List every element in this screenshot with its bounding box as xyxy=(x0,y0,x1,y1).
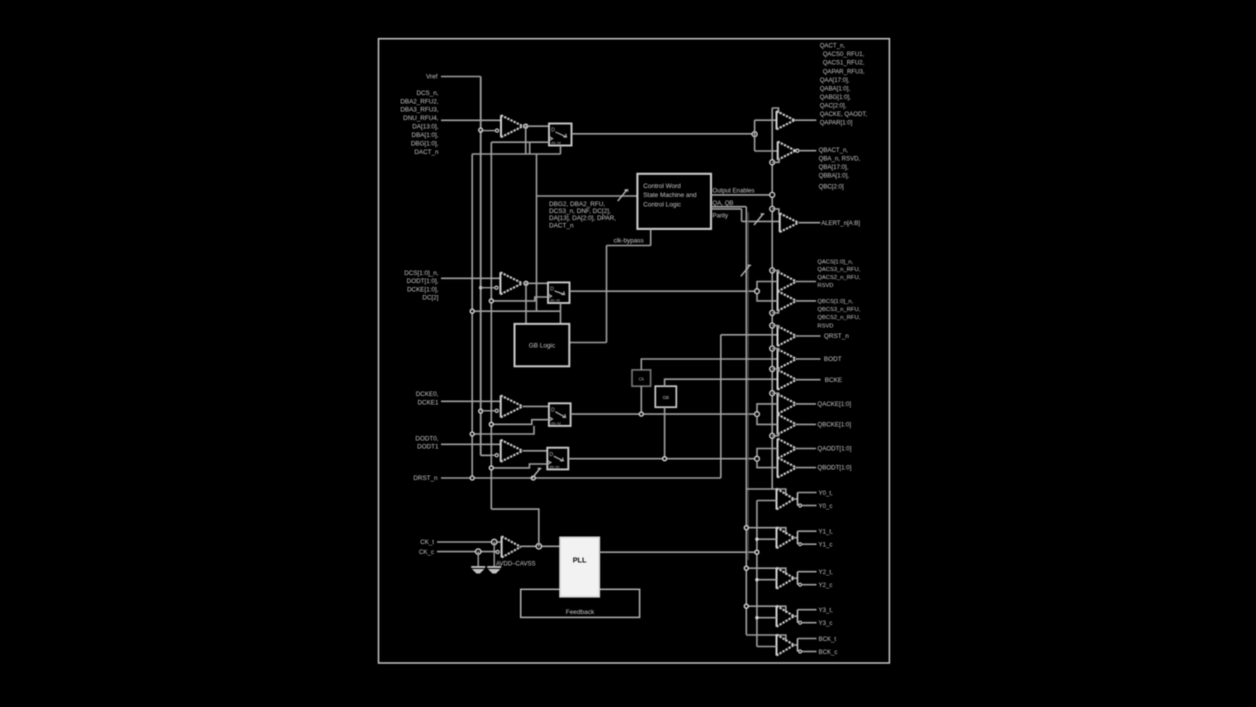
svg-text:QABA[1:0],: QABA[1:0], xyxy=(820,85,851,92)
svg-text:RSVD: RSVD xyxy=(817,283,833,289)
svg-text:DBA2_RFU2,: DBA2_RFU2, xyxy=(400,98,438,105)
svg-text:DODT0,: DODT0, xyxy=(415,436,438,443)
svg-text:CK_c: CK_c xyxy=(419,549,434,556)
svg-text:DBA[1:0],: DBA[1:0], xyxy=(412,132,439,139)
bus width slash 8 xyxy=(618,190,628,201)
wire Y1 out true xyxy=(798,530,817,532)
svg-text:DNU_RFU4,: DNU_RFU4, xyxy=(403,115,439,122)
wire pairC shared left edge xyxy=(777,439,779,478)
output buffer Y3 xyxy=(776,606,778,627)
logic box GB Logic xyxy=(515,324,570,366)
junction pairB input xyxy=(755,412,760,417)
wire BCK out true xyxy=(798,638,817,640)
svg-text:BCKE: BCKE xyxy=(825,377,842,384)
wire Y1 out complement xyxy=(802,543,817,545)
output buffer Y1 xyxy=(776,527,778,548)
svg-text:QACKE, QAODT,: QACKE, QAODT, xyxy=(820,111,868,118)
wire FF2 bottom stub xyxy=(560,303,562,311)
junction clock FF3 xyxy=(489,422,493,426)
wire QRST input xyxy=(721,334,778,336)
svg-text:DCS3_n, DNF, DC[2],: DCS3_n, DNF, DC[2], xyxy=(549,208,611,215)
wire Y0 enable xyxy=(746,489,786,496)
wire Vref vertical bus xyxy=(480,77,482,456)
bubble BCK complement xyxy=(799,650,802,653)
svg-text:QAPAR_RFU3,: QAPAR_RFU3, xyxy=(823,68,865,75)
junction GB2 tap xyxy=(663,457,667,461)
svg-text:CK_t: CK_t xyxy=(420,539,434,546)
wire QA enable from bus xyxy=(772,108,778,113)
junction clk G3 xyxy=(755,578,758,581)
wire parity down xyxy=(741,209,743,222)
junction en b3 xyxy=(770,367,775,372)
svg-text:DBG[1:0],: DBG[1:0], xyxy=(411,141,439,148)
svg-text:QAA[17:0],: QAA[17:0], xyxy=(820,77,850,84)
wire QA QB split xyxy=(754,120,756,151)
bus width slash alert xyxy=(754,214,764,225)
control box U2 xyxy=(637,174,711,229)
svg-text:QBC[2:0]: QBC[2:0] xyxy=(819,184,844,191)
wire Y2 out true xyxy=(798,571,817,573)
svg-text:D: D xyxy=(551,128,555,134)
output buffer pairC top xyxy=(777,439,779,459)
wire ALERT out xyxy=(799,222,821,224)
svg-text:DCS[1:0]_n,: DCS[1:0]_n, xyxy=(404,270,439,277)
wire FF2 clock jog xyxy=(491,297,548,301)
svg-text:QBCS2_n_RFU,: QBCS2_n_RFU, xyxy=(817,315,860,321)
wire U1 to FF1 xyxy=(526,125,549,127)
wire FF1 clock xyxy=(491,141,549,143)
wire FF3 clock jog xyxy=(491,420,549,425)
wire Ck box bottom xyxy=(640,386,642,414)
svg-text:PLL: PLL xyxy=(573,555,587,564)
junction FF1 out split xyxy=(752,132,757,137)
wire pairA input branch xyxy=(757,282,778,301)
ground CK_t termination xyxy=(493,542,495,566)
junction clock node xyxy=(536,544,541,549)
wire QB input xyxy=(755,150,778,152)
wire BCKE out xyxy=(797,379,821,381)
output buffer QA xyxy=(776,111,778,129)
wire bypass horiz xyxy=(607,245,651,247)
svg-text:BCK_t: BCK_t xyxy=(819,636,837,643)
wire FF4 output xyxy=(568,458,756,460)
wire group4 input xyxy=(441,443,501,445)
svg-text:DCS_n,: DCS_n, xyxy=(416,90,438,97)
svg-text:DACT_n: DACT_n xyxy=(414,149,439,156)
junction U3 output xyxy=(524,281,528,285)
wire U3 down to GB xyxy=(525,283,527,324)
wire pairC input branch xyxy=(757,449,778,468)
svg-text:Y2_t,: Y2_t, xyxy=(819,569,834,576)
junction reset-b xyxy=(531,476,535,480)
junction OE bus xyxy=(770,192,775,197)
wire clocklink xyxy=(529,142,531,154)
latch box GB2 xyxy=(655,386,676,407)
svg-text:Control Word: Control Word xyxy=(643,183,681,190)
output buffer U8 (ALERT) xyxy=(779,213,781,232)
wire FF3 aux rail xyxy=(472,426,534,434)
junction Yen G4 xyxy=(744,604,748,608)
wire pairB input branch xyxy=(757,404,778,425)
svg-text:Y3_t,: Y3_t, xyxy=(819,607,834,614)
svg-text:QBODT[1:0]: QBODT[1:0] xyxy=(817,465,851,472)
junction clock FF4 xyxy=(489,466,493,470)
junction QB enable xyxy=(770,160,775,165)
junction rail3 xyxy=(470,432,474,436)
svg-text:QBA_n, RSVD,: QBA_n, RSVD, xyxy=(819,156,861,163)
svg-text:Vref: Vref xyxy=(426,74,438,81)
svg-text:BODT: BODT xyxy=(824,356,842,363)
wire clock to G1 xyxy=(757,500,777,502)
junction en b2 xyxy=(770,346,775,351)
svg-text:QABG[1:0],: QABG[1:0], xyxy=(820,94,851,101)
output buffer pairA bottom xyxy=(777,291,779,311)
svg-text:DRST_n: DRST_n xyxy=(413,475,438,482)
wire QA QB xyxy=(711,206,746,208)
svg-text:QACKE[1:0]: QACKE[1:0] xyxy=(817,401,851,408)
svg-text:ALERT_n[A:B]: ALERT_n[A:B] xyxy=(821,221,860,227)
wire reset bus xyxy=(471,154,473,478)
wire enB2 stub xyxy=(772,432,778,436)
wire en b2 stub xyxy=(772,349,778,353)
wire Y3 out true xyxy=(798,609,817,611)
wire pairB out top xyxy=(797,403,817,405)
wire QB out xyxy=(799,150,816,152)
junction pairC input xyxy=(755,456,760,461)
svg-text:Parity: Parity xyxy=(713,213,730,220)
wire FF4 clock jog xyxy=(491,464,547,468)
wire FF1 output xyxy=(572,133,754,135)
wire FF2 output xyxy=(570,290,757,292)
switch reset slash xyxy=(531,469,541,480)
svg-text:QBACT_n,: QBACT_n, xyxy=(819,147,849,154)
svg-text:QAPAR[1:0]: QAPAR[1:0] xyxy=(820,120,853,127)
junction reset-a xyxy=(470,476,474,480)
bubble Y0 complement xyxy=(799,504,802,507)
svg-text:BCK_c: BCK_c xyxy=(819,649,838,656)
svg-text:Y3_c: Y3_c xyxy=(819,620,833,627)
bubble Y1 complement xyxy=(799,543,802,546)
latch box Ck xyxy=(632,370,651,386)
wire pairC out top xyxy=(797,448,817,450)
junction CK_t term xyxy=(492,539,497,544)
junction Vref-buf3 xyxy=(479,409,483,413)
svg-text:Ck: Ck xyxy=(639,377,645,382)
output buffer BCK xyxy=(776,635,778,656)
wire clock to G5 xyxy=(757,646,777,648)
flip-flop FF2 xyxy=(548,282,570,303)
output buffer pairC bottom xyxy=(777,458,779,478)
wire CK_c xyxy=(437,551,496,553)
wire control box input xyxy=(537,195,638,197)
wire enable bus xyxy=(771,108,773,489)
wire U4 to FF3 xyxy=(523,405,549,407)
wire QA out xyxy=(795,119,817,121)
wire CK_t xyxy=(437,541,502,543)
svg-text:Feedback: Feedback xyxy=(566,609,595,616)
wire bypass down xyxy=(606,246,608,343)
wire clock to G4 xyxy=(757,617,777,619)
junction clk G4 xyxy=(755,616,758,619)
svg-text:DCKE1: DCKE1 xyxy=(418,399,439,406)
wire Ck box top to b2 xyxy=(641,359,777,370)
svg-text:DBG2, DBA2_RFU,: DBG2, DBA2_RFU, xyxy=(549,201,605,208)
bubble Y2 complement xyxy=(799,583,802,586)
svg-text:DA[13], DA[2:0], DPAR,: DA[13], DA[2:0], DPAR, xyxy=(549,215,616,222)
svg-text:DACT_n: DACT_n xyxy=(549,222,574,229)
wire U1 output down xyxy=(525,126,527,154)
wire Y0 out complement xyxy=(802,505,817,507)
svg-text:dis rst: dis rst xyxy=(549,465,559,469)
wire pairA out top xyxy=(797,281,817,283)
input buffer U6 (CK) xyxy=(501,536,503,557)
wire control feed bus xyxy=(536,154,538,311)
wire BODT out xyxy=(797,358,821,360)
wire enA1 stub xyxy=(772,270,778,274)
junction pairA input xyxy=(755,289,760,294)
wire CK out xyxy=(521,545,560,547)
svg-text:Y0_c: Y0_c xyxy=(819,503,833,510)
input buffer U4 xyxy=(500,395,502,417)
wire FF1 bottom stub xyxy=(560,146,562,155)
junction CK_c term xyxy=(476,549,481,554)
junction Ck tap xyxy=(639,412,643,416)
svg-text:QBCS3_n_RFU,: QBCS3_n_RFU, xyxy=(817,307,860,313)
svg-text:Y1_c: Y1_c xyxy=(819,542,833,549)
input buffer U3 xyxy=(499,272,501,294)
junction clk G2 xyxy=(755,538,758,541)
wire output enables xyxy=(711,194,772,196)
svg-text:AVDD–CAVSS: AVDD–CAVSS xyxy=(496,561,535,567)
wire GB2 box top to b3 xyxy=(665,379,778,386)
svg-text:Y0_t,: Y0_t, xyxy=(819,490,834,497)
wire FF1 reset rail xyxy=(472,153,560,155)
wire FF3 output xyxy=(571,413,757,415)
svg-text:QBA[17:0],: QBA[17:0], xyxy=(819,164,849,171)
wire QA input xyxy=(755,119,777,121)
svg-text:dis rst: dis rst xyxy=(551,421,561,425)
wire Y3 enable xyxy=(746,606,786,613)
svg-text:Y2_c: Y2_c xyxy=(819,582,833,589)
svg-text:dis rst: dis rst xyxy=(551,141,561,145)
junction U1 output xyxy=(524,124,528,128)
output buffer b2 (BODT) xyxy=(777,349,779,369)
svg-text:QACS2_n_RFU,: QACS2_n_RFU, xyxy=(817,275,860,281)
wire enA2 stub xyxy=(772,310,778,313)
border frame xyxy=(379,39,890,663)
input buffer U1 xyxy=(500,115,502,137)
wire Y2 enable xyxy=(746,568,786,575)
input buffer U5 xyxy=(500,440,502,462)
junction Vref-buf1 xyxy=(479,128,483,132)
wire rail group2 xyxy=(472,310,560,312)
wire enB1 stub xyxy=(772,393,778,397)
wire Y2 out complement xyxy=(802,584,817,586)
wire parity to alert xyxy=(742,220,780,222)
PLL box U7 xyxy=(560,537,599,597)
wire Y1 enable xyxy=(746,528,786,535)
svg-text:RSVD: RSVD xyxy=(817,323,833,329)
wire into GB top xyxy=(560,311,562,324)
svg-text:Control Logic: Control Logic xyxy=(643,201,681,208)
bus width slash qaqb xyxy=(741,265,751,276)
wire clock riser to FF clock bus xyxy=(491,509,539,546)
wire Y0 apex link xyxy=(794,498,798,500)
wire group3 input xyxy=(441,400,501,402)
wire clock bus xyxy=(490,142,492,509)
wire clock to G3 xyxy=(757,579,777,581)
wire Y0 output bar xyxy=(797,493,799,506)
junction Yen G2 xyxy=(744,526,748,530)
feedback box xyxy=(521,589,640,617)
svg-text:Output Enables: Output Enables xyxy=(713,187,755,194)
output buffer pairB bottom xyxy=(777,414,779,434)
wire bypass to GB xyxy=(569,342,606,344)
svg-text:QACT_n,: QACT_n, xyxy=(820,43,846,50)
svg-text:D: D xyxy=(550,452,554,458)
wire reset xyxy=(441,477,721,479)
svg-text:QACS0_RFU1,: QACS0_RFU1, xyxy=(823,51,865,58)
svg-text:DBA3_RFU3,: DBA3_RFU3, xyxy=(400,107,438,114)
svg-text:DCKE0,: DCKE0, xyxy=(416,391,439,398)
wire QA-QB bus down xyxy=(745,207,747,635)
output buffer Y0 xyxy=(776,489,778,510)
svg-text:QAC[2:0],: QAC[2:0], xyxy=(820,103,847,110)
svg-text:QACS[1:0]_n,: QACS[1:0]_n, xyxy=(817,259,853,265)
svg-text:DODT1: DODT1 xyxy=(417,444,439,451)
output buffer b3 (BCKE) xyxy=(777,370,779,390)
svg-text:clk-bypass: clk-bypass xyxy=(614,238,644,245)
svg-text:QBCS[1:0]_n,: QBCS[1:0]_n, xyxy=(817,299,853,305)
wire U3 to FF2 xyxy=(526,282,548,284)
svg-text:QBBA[1:0],: QBBA[1:0], xyxy=(819,173,850,180)
bubble Y3 complement xyxy=(799,621,802,624)
wire clock mini-bus xyxy=(756,501,758,647)
svg-text:GB Logic: GB Logic xyxy=(529,342,556,349)
wire BCK apex link xyxy=(794,644,798,646)
flip-flop FF3 xyxy=(549,403,571,426)
wire Y3 output bar xyxy=(797,610,799,623)
wire Y2 output bar xyxy=(797,572,799,585)
wire Vref to buf4 bubble xyxy=(481,454,492,456)
svg-text:8: 8 xyxy=(626,188,629,194)
wire Y1 apex link xyxy=(794,537,798,539)
wire Y3 out complement xyxy=(802,622,817,624)
svg-text:DCKE[1:0],: DCKE[1:0], xyxy=(407,286,439,293)
wire Y1 output bar xyxy=(797,531,799,544)
wire pairA shared left edge xyxy=(777,272,779,311)
svg-text:DODT[1:0],: DODT[1:0], xyxy=(407,278,439,285)
svg-text:DC[2]: DC[2] xyxy=(422,295,438,302)
wire parity shadow xyxy=(747,212,749,560)
wire pairB out bottom xyxy=(797,423,817,425)
output buffer QB (inverting) xyxy=(777,142,779,160)
wire GB2 box bottom xyxy=(664,407,666,459)
wire Y3 apex link xyxy=(794,615,798,617)
wire PLL output xyxy=(599,551,757,553)
svg-text:QAODT[1:0]: QAODT[1:0] xyxy=(817,446,851,453)
svg-text:D: D xyxy=(551,408,555,414)
wire QB enable stub xyxy=(772,159,779,163)
wire clock to G2 xyxy=(757,538,777,540)
wire en b3 stub xyxy=(772,369,778,373)
svg-text:dis rst: dis rst xyxy=(550,298,560,302)
wire pairA out bottom xyxy=(797,300,817,302)
wire Vref xyxy=(441,76,481,78)
junction clock FF2 xyxy=(489,299,493,303)
junction Vref-buf2 xyxy=(479,286,482,289)
wire U5 to FF4 xyxy=(523,450,548,452)
svg-text:QACS1_RFU2,: QACS1_RFU2, xyxy=(823,60,865,67)
wire BCK enable xyxy=(746,635,786,642)
junction enA1 xyxy=(770,268,775,273)
wire pairB shared left edge xyxy=(777,394,779,435)
svg-text:QBCKE[1:0]: QBCKE[1:0] xyxy=(817,422,851,429)
wire alert enable stub xyxy=(772,209,779,214)
junction Yen G3 xyxy=(744,566,748,570)
junction enB2 xyxy=(770,433,775,438)
ground CK_c termination xyxy=(477,552,479,566)
junction alert enable xyxy=(770,206,775,211)
wire group2 input xyxy=(441,277,500,279)
junction en b1 xyxy=(770,323,775,328)
svg-text:GB: GB xyxy=(663,395,669,400)
svg-text:QRST_n: QRST_n xyxy=(824,333,849,340)
wire parity xyxy=(711,208,742,210)
wire reset up xyxy=(720,335,722,478)
junction enB1 xyxy=(770,391,775,396)
wire pairC out bottom xyxy=(797,467,817,469)
output buffer b1 (QRST_n) xyxy=(777,326,779,346)
flip-flop FF1 xyxy=(549,124,572,146)
svg-text:Y1_t,: Y1_t, xyxy=(819,529,834,536)
svg-text:QACS3_n_RFU,: QACS3_n_RFU, xyxy=(817,267,860,273)
wire Y2 apex link xyxy=(794,577,798,579)
wire group1 input xyxy=(441,119,501,121)
flip-flop FF4 xyxy=(547,448,568,470)
junction PLL clock xyxy=(755,550,759,554)
output buffer pairB top xyxy=(777,394,779,414)
wire QRST out xyxy=(797,335,821,337)
junction enA2 xyxy=(770,310,775,315)
wire en b1 stub xyxy=(772,326,778,330)
wire BCK out complement xyxy=(802,651,817,653)
wire BCK output bar xyxy=(797,639,799,652)
junction rail2 xyxy=(470,309,474,313)
output buffer pairA top xyxy=(777,272,779,292)
output buffer Y2 xyxy=(776,568,778,589)
wire bypass stub xyxy=(650,229,652,246)
svg-text:DA[13:0],: DA[13:0], xyxy=(412,124,439,131)
svg-text:State Machine and: State Machine and xyxy=(643,192,697,199)
wire Y0 out true xyxy=(798,492,817,494)
svg-text:D: D xyxy=(550,287,554,293)
